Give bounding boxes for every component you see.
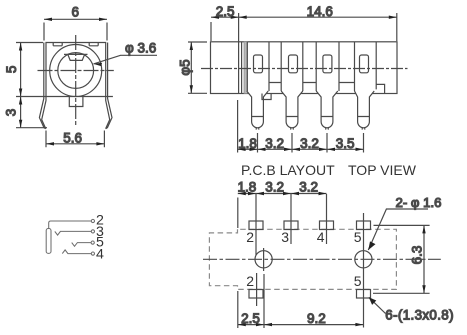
label 6-(1.3x0.8)	[369, 297, 454, 322]
svg-text:2.5: 2.5	[216, 4, 235, 19]
svg-text:3.2: 3.2	[265, 179, 284, 194]
svg-text:3.2: 3.2	[265, 136, 284, 151]
hole crosshairs	[263, 248, 265, 271]
terminal 3 circle	[91, 230, 94, 233]
pin 1 rear stub	[262, 94, 271, 100]
bore key notch	[64, 54, 88, 60]
center crosshair	[38, 35, 114, 126]
tower walls	[247, 42, 269, 91]
terminal 5 circle	[91, 241, 94, 244]
pad 2 top	[249, 221, 263, 230]
mounting hole left	[255, 251, 272, 268]
valley bottoms	[269, 82, 355, 84]
svg-text:2: 2	[246, 273, 254, 289]
pad numbers bottom row	[246, 273, 362, 289]
svg-text:4: 4	[96, 247, 104, 263]
dimension 14.6	[239, 4, 397, 41]
dimension 5	[4, 43, 43, 97]
svg-text:2.5: 2.5	[241, 311, 260, 326]
dimension 5.6	[46, 131, 104, 148]
pad numbers top row	[246, 229, 362, 245]
svg-text:14.6: 14.6	[307, 4, 333, 19]
svg-text:1.8: 1.8	[238, 136, 257, 151]
dimension phi 5	[178, 42, 208, 93]
jack bore phi 3.6	[58, 53, 94, 89]
right bottom step	[376, 84, 384, 93]
svg-text:1.8: 1.8	[238, 179, 257, 194]
label phi 3.6 leader	[94, 41, 158, 67]
pin 4	[355, 91, 375, 130]
svg-text:TOP VIEW: TOP VIEW	[348, 162, 417, 178]
svg-text:3.2: 3.2	[300, 136, 319, 151]
pin pitch dimensions	[238, 100, 364, 153]
svg-text:P.C.B LAYOUT: P.C.B LAYOUT	[241, 162, 335, 178]
svg-text:3.5: 3.5	[336, 136, 355, 151]
pin 2	[281, 91, 303, 130]
terminal window slots	[254, 55, 263, 73]
mounting hole right	[355, 251, 372, 268]
svg-text:φ5: φ5	[178, 59, 193, 75]
pad centerlines	[255, 194, 257, 255]
sleeve contact	[46, 229, 51, 254]
pad pitch dimensions top	[238, 179, 327, 228]
svg-text:6: 6	[72, 5, 80, 20]
pin number labels	[96, 213, 104, 263]
outer ring	[50, 45, 102, 97]
contact 5	[72, 243, 91, 247]
svg-text:6.3: 6.3	[409, 246, 424, 265]
dimension 6.3	[373, 225, 430, 293]
PCB LAYOUT GROUP	[203, 179, 454, 328]
svg-text:3: 3	[281, 229, 289, 245]
svg-text:5: 5	[354, 229, 362, 245]
jack body front	[16, 43, 113, 97]
dimensions 2.5 and 9.2 bottom	[238, 291, 364, 328]
dimension 2.5 top	[211, 4, 239, 41]
side centerline	[201, 68, 408, 70]
SCHEMATIC GROUP	[46, 213, 104, 263]
svg-text:3: 3	[4, 109, 19, 117]
svg-text:5: 5	[4, 66, 19, 74]
front flange line	[238, 13, 240, 94]
svg-text:9.2: 9.2	[307, 311, 326, 326]
pad 4	[320, 221, 334, 230]
svg-text:5.6: 5.6	[63, 131, 82, 146]
housing body side	[211, 42, 398, 94]
dimension 3	[4, 97, 48, 128]
terminal 4 circle	[91, 252, 94, 255]
pin 1	[247, 91, 268, 130]
svg-text:2: 2	[246, 229, 254, 245]
bottom tab	[69, 97, 83, 107]
pad 2 bottom	[249, 290, 263, 299]
svg-text:5: 5	[354, 273, 362, 289]
pad 5 top	[357, 221, 371, 230]
component outline dashed	[209, 229, 396, 289]
view titles	[241, 162, 417, 178]
svg-text:2- φ 1.6: 2- φ 1.6	[396, 195, 442, 210]
SIDE VIEW GROUP	[178, 4, 417, 178]
label 2-phi1.6	[368, 195, 441, 250]
contact 4	[62, 250, 91, 254]
dimension 6	[44, 5, 107, 41]
svg-text:6-(1.3x0.8): 6-(1.3x0.8)	[385, 308, 454, 323]
right leg	[106, 43, 112, 129]
svg-text:4: 4	[317, 229, 325, 245]
svg-text:φ 3.6: φ 3.6	[125, 41, 156, 56]
panel shading stripe	[244, 42, 247, 94]
svg-text:3.2: 3.2	[299, 179, 318, 194]
wire terminal 2	[49, 221, 92, 228]
terminal 2 circle	[91, 219, 94, 222]
pin 3	[316, 91, 338, 130]
pad 3	[284, 221, 298, 230]
left leg	[39, 43, 46, 129]
pad 5 bottom	[357, 290, 371, 299]
FRONT VIEW GROUP	[4, 5, 158, 148]
contact 3	[55, 231, 92, 235]
